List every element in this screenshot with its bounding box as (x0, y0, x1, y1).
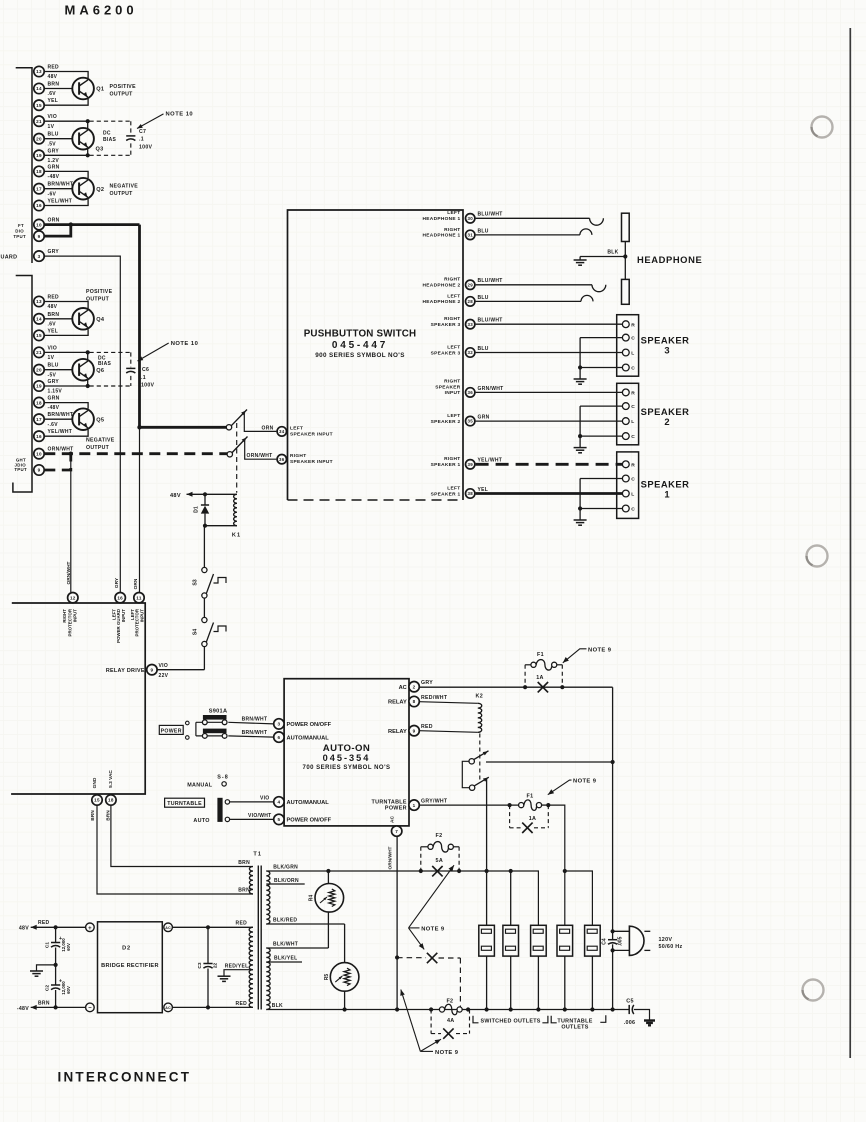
svg-text:11: 11 (136, 595, 142, 600)
svg-text:Q2: Q2 (96, 187, 104, 193)
svg-text:HEADPHONE: HEADPHONE (637, 254, 702, 265)
svg-text:AUTO/MANUAL: AUTO/MANUAL (287, 800, 330, 806)
svg-text:48V: 48V (170, 493, 181, 499)
svg-text:VIO: VIO (159, 663, 169, 669)
svg-text:SPEAKER INPUT: SPEAKER INPUT (290, 431, 333, 437)
svg-text:AUTO: AUTO (193, 818, 209, 824)
svg-text:POWER: POWER (161, 728, 182, 734)
svg-text:5A: 5A (436, 858, 444, 864)
svg-text:NOTE 9: NOTE 9 (588, 647, 612, 653)
svg-text:39: 39 (467, 462, 473, 467)
svg-text:RIGHT: RIGHT (444, 227, 460, 233)
svg-text:1.2V: 1.2V (48, 158, 60, 164)
svg-text:RIGHT: RIGHT (444, 277, 460, 283)
svg-text:S-8: S-8 (217, 774, 228, 780)
svg-text:INPUT: INPUT (73, 609, 78, 622)
svg-text:C2: C2 (45, 985, 51, 991)
svg-text:+: + (88, 926, 92, 932)
svg-text:9: 9 (38, 468, 41, 473)
svg-text:17: 17 (36, 186, 42, 191)
svg-text:INPUT: INPUT (445, 390, 461, 396)
svg-text:GRN: GRN (478, 415, 490, 421)
svg-text:20: 20 (36, 136, 42, 141)
svg-text:F2: F2 (446, 999, 453, 1005)
svg-text:S901A: S901A (209, 709, 228, 715)
svg-text:SPEAKER 3: SPEAKER 3 (431, 350, 461, 356)
svg-text:ORN/WHT: ORN/WHT (388, 846, 394, 869)
svg-text:DIO: DIO (15, 229, 24, 234)
svg-text:BRIDGE RECTIFIER: BRIDGE RECTIFIER (101, 963, 159, 969)
svg-text:RELAY: RELAY (388, 729, 407, 735)
svg-text:POWER ON/OFF: POWER ON/OFF (287, 722, 332, 728)
svg-text:Q4: Q4 (96, 317, 105, 323)
svg-text:-48V: -48V (48, 174, 60, 180)
svg-text:NOTE 9: NOTE 9 (435, 1050, 459, 1056)
svg-text:1A: 1A (536, 675, 544, 681)
svg-text:15: 15 (36, 103, 42, 108)
svg-text:RED: RED (38, 920, 50, 926)
svg-text:NOTE 9: NOTE 9 (573, 779, 597, 785)
svg-text:BRN/WHT: BRN/WHT (242, 730, 268, 736)
svg-text:.5V: .5V (48, 141, 57, 147)
svg-text:BRN: BRN (90, 810, 96, 821)
svg-text:GRY: GRY (421, 680, 433, 686)
svg-text:48V: 48V (19, 925, 29, 931)
svg-text:Q3: Q3 (96, 147, 104, 153)
svg-text:18: 18 (36, 169, 42, 174)
svg-text:BLU/WHT: BLU/WHT (478, 212, 503, 218)
svg-text:HEADPHONE 1: HEADPHONE 1 (423, 233, 461, 239)
svg-text:-.6V: -.6V (48, 422, 59, 428)
svg-text:RED/WHT: RED/WHT (421, 695, 448, 701)
svg-text:Q6: Q6 (96, 368, 104, 374)
svg-text:C: C (631, 507, 635, 513)
svg-text:900 SERIES SYMBOL NO'S: 900 SERIES SYMBOL NO'S (315, 352, 405, 359)
svg-text:BLU: BLU (478, 346, 489, 352)
svg-text:18: 18 (36, 400, 42, 405)
svg-text:36: 36 (279, 457, 285, 462)
svg-text:C7: C7 (139, 129, 146, 135)
svg-text:BLK: BLK (272, 1003, 283, 1009)
svg-text:17: 17 (36, 417, 42, 422)
svg-text:16: 16 (117, 595, 123, 600)
svg-text:BRN: BRN (48, 82, 60, 88)
svg-text:.006: .006 (624, 1020, 636, 1026)
svg-text:RED: RED (236, 1001, 248, 1007)
svg-text:BLU: BLU (48, 363, 59, 369)
svg-text:9: 9 (38, 234, 41, 239)
svg-text:YEL/WHT: YEL/WHT (48, 199, 73, 205)
svg-text:BRN: BRN (238, 860, 250, 866)
svg-text:120V: 120V (659, 937, 673, 943)
svg-text:YEL/WHT: YEL/WHT (48, 429, 73, 435)
svg-text:R: R (631, 322, 635, 328)
svg-text:9: 9 (150, 667, 153, 672)
svg-text:LEFT: LEFT (447, 485, 460, 491)
svg-text:RED/YEL: RED/YEL (225, 964, 249, 970)
svg-text:.005: .005 (618, 936, 624, 946)
svg-text:14: 14 (36, 86, 42, 91)
svg-text:YEL: YEL (48, 98, 59, 104)
svg-text:NOTE 10: NOTE 10 (166, 112, 194, 118)
svg-text:ORN/WHT: ORN/WHT (48, 447, 74, 453)
svg-text:Q1: Q1 (96, 87, 104, 93)
svg-text:Q5: Q5 (96, 417, 104, 423)
svg-text:VIO: VIO (48, 345, 58, 351)
svg-text:UARD: UARD (1, 255, 18, 261)
svg-text:21: 21 (36, 119, 42, 124)
svg-text:13: 13 (36, 299, 42, 304)
svg-text:30: 30 (467, 216, 473, 221)
svg-text:L: L (631, 351, 634, 357)
svg-text:NEGATIVE: NEGATIVE (86, 438, 115, 444)
svg-text:YEL: YEL (478, 487, 489, 493)
svg-text:BLK/YEL: BLK/YEL (274, 956, 298, 962)
svg-text:700 SERIES SYMBOL NO'S: 700 SERIES SYMBOL NO'S (302, 765, 390, 771)
svg-text:28: 28 (467, 299, 473, 304)
svg-text:BLU/WHT: BLU/WHT (478, 278, 503, 284)
svg-text:LEFT: LEFT (447, 293, 460, 299)
svg-text:OUTPUT: OUTPUT (86, 297, 110, 303)
svg-text:-48V: -48V (48, 405, 60, 411)
svg-text:3: 3 (664, 345, 669, 356)
svg-text:OUTPUT: OUTPUT (86, 445, 110, 451)
svg-text:POWER ON/OFF: POWER ON/OFF (287, 818, 332, 824)
svg-text:BRN/WHT: BRN/WHT (242, 716, 268, 722)
svg-text:19: 19 (36, 384, 42, 389)
svg-text:RED: RED (421, 724, 433, 730)
svg-text:INPUT: INPUT (121, 609, 126, 622)
svg-text:L: L (631, 419, 634, 425)
svg-text:GRY/WHT: GRY/WHT (421, 799, 448, 805)
svg-text:GND: GND (92, 777, 98, 788)
svg-text:RIGHT: RIGHT (444, 316, 460, 322)
svg-text:L: L (631, 492, 634, 498)
svg-text:C: C (631, 404, 635, 410)
svg-text:15: 15 (94, 798, 100, 803)
svg-text:C: C (631, 366, 635, 372)
svg-text:1.15V: 1.15V (48, 389, 63, 395)
svg-text:OUTLETS: OUTLETS (561, 1024, 588, 1030)
svg-text:BRN: BRN (238, 888, 250, 894)
svg-text:BIAS: BIAS (103, 137, 117, 143)
svg-text:C1: C1 (45, 942, 51, 948)
svg-text:BLK/RED: BLK/RED (273, 918, 297, 924)
svg-text:GRY: GRY (114, 577, 120, 588)
svg-text:VIO: VIO (260, 796, 270, 802)
svg-text:F1: F1 (527, 793, 534, 799)
svg-text:BLK/WHT: BLK/WHT (273, 941, 298, 947)
svg-text:ORN/WHT: ORN/WHT (66, 561, 72, 584)
svg-text:1V: 1V (48, 355, 55, 361)
svg-text:31: 31 (467, 233, 473, 238)
svg-text:C6: C6 (142, 367, 149, 373)
svg-text:S4: S4 (193, 629, 199, 635)
svg-text:C5: C5 (626, 998, 634, 1004)
svg-text:C: C (631, 336, 635, 342)
svg-text:TPUT: TPUT (14, 467, 27, 472)
svg-text:VIO/WHT: VIO/WHT (248, 813, 272, 819)
svg-text:-6V: -6V (48, 191, 57, 197)
svg-text:C4: C4 (601, 938, 607, 945)
svg-text:50/60 Hz: 50/60 Hz (659, 944, 683, 950)
svg-text:D1: D1 (194, 506, 200, 513)
svg-text:BRN: BRN (38, 1000, 50, 1006)
svg-text:YEL/WHT: YEL/WHT (478, 458, 503, 464)
svg-text:48V: 48V (48, 74, 58, 80)
svg-text:POWER: POWER (385, 806, 407, 812)
svg-text:HEADPHONE 2: HEADPHONE 2 (423, 299, 461, 305)
svg-text:16: 16 (36, 434, 42, 439)
svg-text:12: 12 (70, 595, 76, 600)
svg-text:NEGATIVE: NEGATIVE (110, 183, 139, 189)
svg-text:PROTECTOR: PROTECTOR (67, 608, 72, 636)
svg-text:F2: F2 (436, 833, 443, 839)
svg-text:R5: R5 (324, 974, 330, 981)
svg-text:BLU: BLU (48, 132, 59, 138)
svg-text:9: 9 (413, 728, 416, 733)
svg-text:LEFT: LEFT (447, 413, 460, 419)
svg-text:BRN/WHT: BRN/WHT (48, 412, 74, 418)
svg-text:1: 1 (413, 803, 416, 808)
svg-text:LEFT: LEFT (447, 210, 460, 216)
svg-text:LEFT: LEFT (447, 344, 460, 350)
svg-text:LEFT: LEFT (290, 425, 303, 431)
svg-text:48V: 48V (48, 304, 58, 310)
svg-text:NOTE 9: NOTE 9 (421, 926, 445, 932)
svg-text:T1: T1 (253, 852, 262, 858)
svg-text:TPUT: TPUT (13, 234, 26, 239)
svg-text:NOTE 10: NOTE 10 (171, 341, 199, 347)
svg-text:BRN: BRN (48, 312, 60, 318)
svg-text:AUTO/MANUAL: AUTO/MANUAL (287, 735, 330, 741)
svg-text:60V: 60V (66, 943, 71, 951)
svg-text:AC: AC (389, 816, 395, 823)
svg-text:-5V: -5V (48, 372, 57, 378)
svg-text:MANUAL: MANUAL (187, 782, 213, 788)
svg-text:1: 1 (664, 489, 669, 500)
svg-text:SPEAKER 2: SPEAKER 2 (431, 419, 461, 425)
svg-text:2: 2 (664, 416, 669, 427)
svg-text:16: 16 (36, 203, 42, 208)
svg-text:OUTPUT: OUTPUT (110, 191, 134, 197)
svg-text:3: 3 (277, 722, 280, 727)
svg-text:PUSHBUTTON SWITCH: PUSHBUTTON SWITCH (304, 329, 417, 340)
svg-text:36: 36 (467, 390, 473, 395)
svg-text:35: 35 (467, 419, 473, 424)
svg-text:RED: RED (48, 295, 60, 301)
svg-text:34: 34 (279, 429, 285, 434)
svg-text:10: 10 (36, 222, 42, 227)
svg-text:DC: DC (103, 130, 111, 136)
svg-text:F1: F1 (537, 652, 544, 658)
svg-text:38: 38 (467, 491, 473, 496)
svg-text:RIGHT: RIGHT (62, 609, 67, 623)
svg-text:18: 18 (108, 798, 114, 803)
svg-text:BLU/WHT: BLU/WHT (478, 318, 503, 324)
svg-text:ORN: ORN (133, 578, 139, 589)
svg-text:K2: K2 (476, 694, 484, 700)
svg-text:1A: 1A (529, 816, 537, 822)
svg-text:SPEAKER INPUT: SPEAKER INPUT (290, 459, 333, 465)
svg-text:4A: 4A (447, 1018, 455, 1024)
svg-text:BLK/ORN: BLK/ORN (274, 878, 299, 884)
svg-text:HEADPHONE 1: HEADPHONE 1 (423, 216, 461, 222)
svg-text:4: 4 (277, 800, 280, 805)
svg-text:21: 21 (36, 350, 42, 355)
svg-text:.1: .1 (139, 137, 144, 143)
svg-text:MA6200: MA6200 (65, 3, 138, 18)
svg-text:BLK: BLK (607, 250, 618, 256)
svg-text:INPUT: INPUT (139, 609, 144, 622)
svg-text:2: 2 (413, 684, 416, 689)
svg-text:RIGHT: RIGHT (290, 453, 306, 459)
svg-text:C: C (631, 477, 635, 483)
svg-text:32: 32 (467, 350, 473, 355)
svg-text:-48V: -48V (17, 1006, 29, 1012)
svg-text:RED: RED (48, 65, 60, 71)
svg-text:7: 7 (395, 829, 398, 834)
svg-text:GRY: GRY (48, 148, 60, 154)
svg-text:ORN: ORN (262, 425, 274, 431)
svg-text:19: 19 (36, 153, 42, 158)
svg-text:SPEAKER 1: SPEAKER 1 (431, 491, 461, 497)
svg-text:VIO: VIO (48, 114, 58, 120)
svg-text:3: 3 (38, 254, 41, 259)
svg-text:045-447: 045-447 (332, 340, 388, 351)
svg-text:GRN: GRN (48, 396, 60, 402)
svg-text:BIAS: BIAS (98, 361, 112, 367)
svg-text:20: 20 (36, 367, 42, 372)
svg-text:BLK/GRN: BLK/GRN (273, 864, 298, 870)
svg-text:R4: R4 (309, 895, 315, 902)
svg-text:S3: S3 (193, 579, 199, 585)
svg-text:8: 8 (413, 699, 416, 704)
svg-text:BLU: BLU (478, 295, 489, 301)
svg-text:GRN/WHT: GRN/WHT (478, 386, 504, 392)
svg-text:−: − (88, 1006, 92, 1012)
svg-text:RED: RED (236, 921, 248, 927)
svg-text:POSITIVE: POSITIVE (110, 84, 137, 90)
svg-text:SPEAKER: SPEAKER (435, 384, 461, 390)
svg-text:R: R (631, 391, 635, 397)
svg-text:33: 33 (467, 322, 473, 327)
svg-text:SPEAKER 1: SPEAKER 1 (431, 462, 461, 468)
svg-text:AC: AC (165, 926, 171, 930)
svg-text:60V: 60V (66, 986, 71, 994)
svg-text:BLU: BLU (478, 228, 489, 234)
svg-text:5: 5 (277, 817, 280, 822)
svg-text:SPEAKER 3: SPEAKER 3 (431, 322, 461, 328)
svg-text:22V: 22V (159, 673, 169, 679)
svg-text:GRY: GRY (48, 379, 60, 385)
svg-text:RELAY: RELAY (388, 700, 407, 706)
svg-text:22: 22 (212, 963, 218, 969)
svg-text:13: 13 (36, 69, 42, 74)
svg-text:045-354: 045-354 (323, 753, 371, 763)
svg-text:C: C (631, 434, 635, 440)
svg-text:14: 14 (36, 317, 42, 322)
svg-text:SWITCHED OUTLETS: SWITCHED OUTLETS (481, 1018, 541, 1024)
svg-text:FT: FT (18, 223, 24, 228)
svg-text:ORN: ORN (48, 218, 60, 224)
svg-text:ORN/WHT: ORN/WHT (247, 453, 273, 459)
svg-text:GRY: GRY (48, 249, 60, 255)
svg-text:10: 10 (36, 451, 42, 456)
svg-text:29: 29 (467, 282, 473, 287)
svg-text:TURNTABLE: TURNTABLE (167, 801, 202, 807)
svg-text:BRN/WHT: BRN/WHT (48, 182, 74, 188)
svg-text:R: R (631, 462, 635, 468)
svg-text:RIGHT: RIGHT (444, 456, 460, 462)
svg-text:K1: K1 (232, 533, 241, 539)
svg-text:100V: 100V (139, 145, 153, 151)
svg-text:YEL: YEL (48, 328, 59, 334)
svg-text:.6V: .6V (48, 91, 57, 97)
svg-text:15: 15 (36, 333, 42, 338)
svg-text:1V: 1V (48, 124, 55, 130)
svg-text:OUTPUT: OUTPUT (110, 92, 134, 98)
svg-text:POSITIVE: POSITIVE (86, 289, 113, 295)
svg-text:.1: .1 (141, 375, 146, 381)
svg-text:100V: 100V (141, 382, 155, 388)
svg-text:AC: AC (165, 1006, 171, 1010)
svg-text:C3: C3 (197, 962, 203, 968)
svg-text:5.3 VAC: 5.3 VAC (108, 770, 114, 788)
svg-text:GRN: GRN (48, 164, 60, 170)
svg-text:RELAY DRIVE: RELAY DRIVE (106, 668, 145, 674)
svg-text:.6V: .6V (48, 321, 57, 327)
svg-text:6: 6 (277, 735, 280, 740)
svg-text:HEADPHONE 2: HEADPHONE 2 (423, 283, 461, 289)
svg-text:RIGHT: RIGHT (444, 378, 460, 384)
svg-text:D2: D2 (122, 946, 131, 952)
svg-text:AC: AC (399, 685, 407, 691)
svg-text:INTERCONNECT: INTERCONNECT (58, 1070, 192, 1085)
